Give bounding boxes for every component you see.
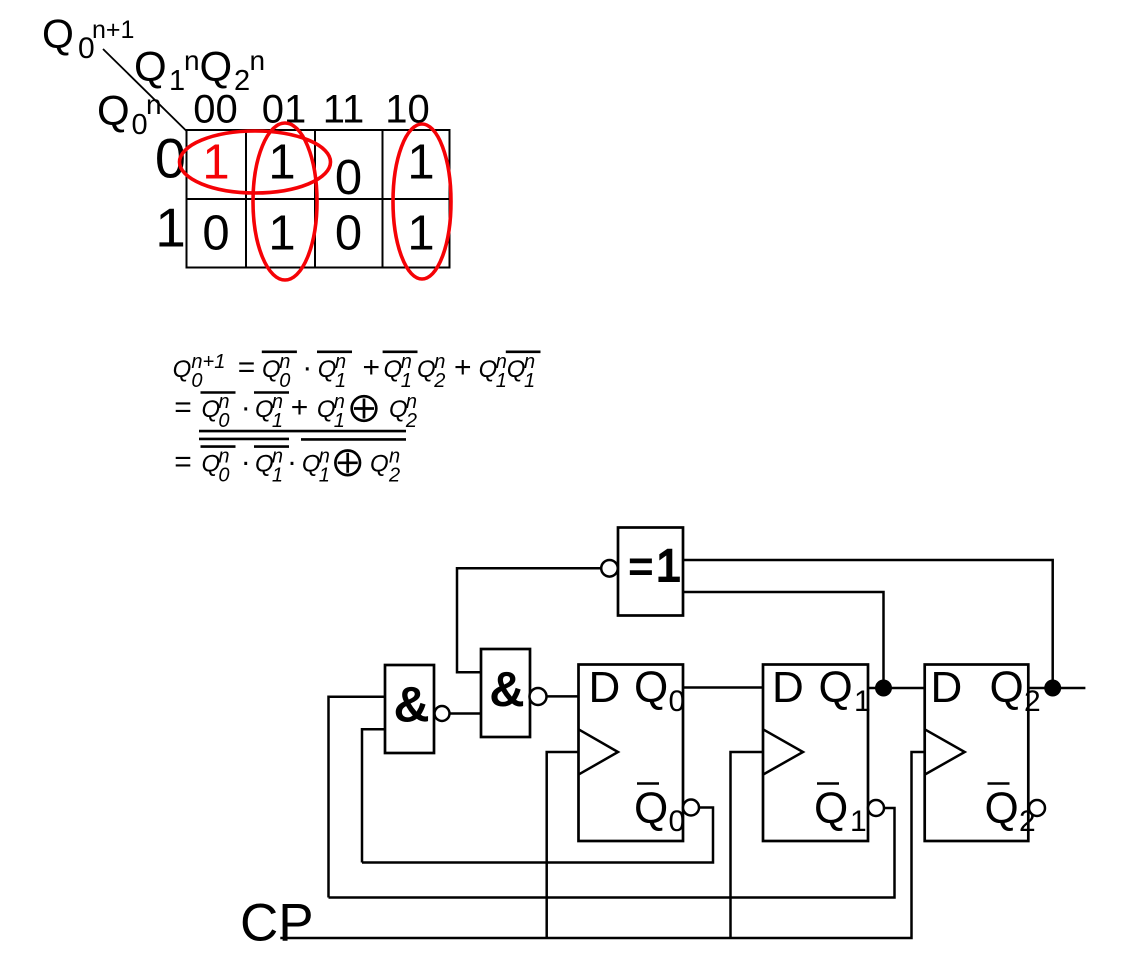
wire Q1 to FF2 D — [868, 687, 925, 690]
nand gate U2 box — [385, 665, 434, 753]
svg-text:CP: CP — [240, 894, 314, 953]
svg-text:=: = — [174, 391, 192, 424]
nand gate U2 output bubble — [435, 706, 450, 721]
svg-text:11: 11 — [323, 88, 365, 132]
svg-text:D: D — [589, 663, 621, 712]
flip-flop FF2 box — [925, 665, 1029, 842]
svg-text:+: + — [291, 391, 309, 424]
xor gate U1 output bubble — [601, 560, 618, 577]
wire nand1 input2 feedback — [362, 729, 385, 862]
svg-text:Q: Q — [202, 396, 221, 423]
svg-text:Q: Q — [985, 784, 1019, 833]
wire clock to FF0 — [547, 752, 579, 938]
svg-text:1: 1 — [524, 370, 535, 392]
equation line 3 — [174, 431, 406, 486]
node Q1nQ2n column label — [134, 43, 265, 98]
svg-text:Q: Q — [990, 663, 1024, 712]
svg-text:Q: Q — [479, 356, 498, 383]
node column headers 00 01 11 10 — [193, 88, 430, 132]
svg-text:Q: Q — [417, 356, 436, 383]
node junction dot Q1 — [875, 680, 892, 697]
node Q0n row label — [97, 87, 162, 142]
svg-text:00: 00 — [193, 88, 238, 132]
svg-text:0: 0 — [191, 370, 202, 392]
svg-text:0: 0 — [279, 370, 290, 392]
svg-text:Q: Q — [255, 396, 274, 423]
svg-text:Q: Q — [814, 784, 848, 833]
flip-flop FF2 labels D Q2 — [931, 663, 1041, 718]
svg-text:0: 0 — [335, 151, 362, 205]
wire Qbar0 feedback to nand1 input2 — [362, 808, 713, 863]
svg-text:Q: Q — [42, 11, 74, 57]
svg-text:Q: Q — [134, 43, 167, 90]
wire Q0 to FF1 D — [683, 686, 763, 689]
svg-text:Q: Q — [384, 356, 403, 383]
xor gate U1 box =1 — [618, 528, 683, 616]
node junction dot Q2 — [1044, 680, 1061, 697]
flip-flop FF2 label Qbar2 — [985, 784, 1036, 839]
svg-text:1: 1 — [268, 207, 295, 261]
kmap group oval column 10 — [393, 124, 451, 279]
svg-text:Q: Q — [819, 663, 853, 712]
svg-text:1: 1 — [850, 805, 867, 838]
svg-text:Q: Q — [507, 356, 526, 383]
svg-text:Q: Q — [317, 396, 336, 423]
svg-text:1: 1 — [496, 370, 507, 392]
flip-flop FF2 clock triangle — [925, 729, 965, 774]
svg-text:·: · — [287, 445, 297, 478]
svg-text:1: 1 — [854, 685, 871, 718]
svg-text:0: 0 — [669, 685, 686, 718]
svg-text:Q: Q — [97, 87, 130, 134]
wire xor output lower to Q1 node — [683, 592, 884, 688]
svg-text:·: · — [241, 445, 251, 478]
kmap group oval column 01 — [253, 123, 317, 280]
svg-text:Q: Q — [202, 450, 221, 477]
wire clock to FF1 — [731, 752, 764, 938]
svg-text:1: 1 — [407, 135, 434, 189]
svg-text:1: 1 — [268, 135, 295, 189]
svg-text:1: 1 — [401, 370, 412, 392]
wire nand1 output to nand2 — [450, 712, 482, 715]
svg-text:1: 1 — [155, 197, 186, 259]
flip-flop FF1 label Qbar1 — [814, 784, 867, 839]
flip-flop FF0 box — [579, 665, 684, 842]
svg-text:1: 1 — [169, 65, 185, 97]
svg-text:=: = — [238, 351, 256, 384]
flip-flop FF1 Qbar bubble — [868, 800, 884, 816]
wire CP line — [280, 752, 925, 938]
wire Q2 output stub — [1028, 687, 1085, 690]
svg-text:·: · — [241, 391, 251, 424]
svg-text:01: 01 — [262, 88, 307, 132]
svg-text:D: D — [772, 663, 804, 712]
wire xor input left segment — [457, 568, 601, 672]
flip-flop FF2 Qbar bubble — [1029, 800, 1045, 816]
flip-flop FF0 labels D Q0 — [589, 663, 686, 718]
svg-text:&: & — [393, 677, 429, 733]
nand gate U3 box — [481, 649, 530, 737]
svg-text:1: 1 — [202, 135, 229, 189]
svg-text:2: 2 — [388, 464, 400, 486]
svg-text:+: + — [363, 351, 381, 384]
svg-text:Q: Q — [634, 784, 668, 833]
svg-text:=: = — [628, 542, 654, 591]
kmap cell values row0 — [202, 135, 434, 205]
wire xor output top to Q2 node — [683, 560, 1053, 688]
flip-flop FF1 box — [763, 665, 868, 842]
equation line 1 — [173, 351, 541, 392]
svg-text:n: n — [146, 89, 162, 120]
svg-text:1: 1 — [335, 370, 346, 392]
wire nand1 input1 feedback — [329, 697, 386, 898]
flip-flop FF0 Qbar bubble — [683, 800, 699, 816]
wire diagonal leader — [103, 49, 187, 131]
kmap grid — [187, 130, 450, 268]
svg-text:0: 0 — [335, 207, 362, 261]
node Q0^n+1 output label — [42, 11, 134, 65]
svg-text:+: + — [454, 351, 472, 384]
svg-text:Q: Q — [262, 356, 281, 383]
flip-flop FF0 clock triangle — [579, 729, 619, 774]
svg-text:Q: Q — [634, 663, 668, 712]
svg-text:D: D — [931, 663, 963, 712]
svg-text:n+1: n+1 — [92, 16, 134, 44]
svg-text:·: · — [302, 351, 312, 384]
svg-text:0: 0 — [202, 207, 229, 261]
flip-flop FF0 label Qbar0 — [634, 784, 685, 839]
svg-text:Q: Q — [173, 356, 192, 383]
flip-flop FF1 clock triangle — [763, 729, 803, 774]
kmap cell values row1 — [202, 207, 434, 261]
svg-text:2: 2 — [1024, 685, 1041, 718]
wire Qbar1 feedback to nand1 input1 — [329, 808, 895, 898]
svg-text:Q: Q — [302, 450, 321, 477]
svg-text:Q: Q — [370, 450, 389, 477]
svg-text:n: n — [184, 45, 200, 76]
svg-text:Q: Q — [255, 450, 274, 477]
svg-text:Q: Q — [389, 396, 408, 423]
wire nand2 output to FF0 D — [547, 695, 587, 698]
svg-text:=: = — [174, 445, 192, 478]
flip-flop FF1 labels D Q1 — [772, 663, 871, 718]
svg-text:Q: Q — [318, 356, 337, 383]
kmap group oval horizontal — [180, 131, 331, 193]
svg-text:Q: Q — [200, 43, 233, 90]
svg-text:n: n — [250, 45, 266, 76]
svg-text:1: 1 — [656, 540, 681, 591]
svg-text:&: & — [489, 663, 524, 717]
nand gate U3 output bubble — [530, 688, 547, 705]
svg-text:1: 1 — [407, 207, 434, 261]
equation line 2 — [174, 391, 417, 432]
